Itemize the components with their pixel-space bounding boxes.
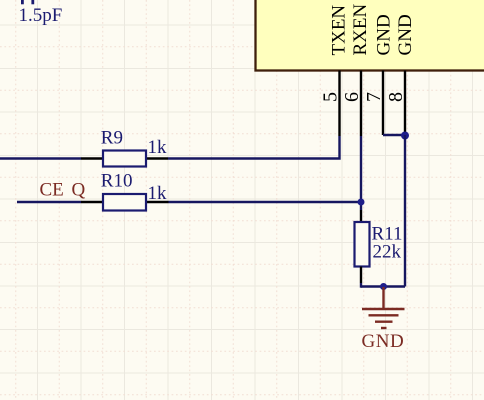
svg-text:R9: R9: [101, 128, 123, 149]
svg-text:6: 6: [341, 92, 363, 102]
junction dot at R10/pin6: [358, 199, 365, 206]
svg-text:5: 5: [320, 92, 342, 102]
svg-text:7: 7: [363, 92, 385, 102]
svg-text:1.5pF: 1.5pF: [19, 5, 63, 26]
svg-text:TXEN: TXEN: [329, 5, 350, 56]
svg-text:22k: 22k: [373, 242, 402, 263]
net label CE Q: [40, 180, 86, 201]
svg-text:RXEN: RXEN: [350, 4, 371, 56]
pin 7 line: [382, 71, 384, 136]
wire pin6 down to R11: [360, 136, 362, 210]
pin 8 line: [404, 71, 406, 136]
IC body U? (partial, cut off top/right): [256, 0, 484, 71]
wire bottom horizontal to ground node: [361, 285, 405, 287]
wire pin8 column down: [404, 135, 406, 287]
ground symbol: [362, 287, 405, 328]
svg-text:1k: 1k: [148, 183, 168, 204]
svg-text:GND: GND: [395, 14, 416, 55]
junction dot ground node: [380, 283, 387, 290]
svg-text:CE: CE: [40, 180, 64, 201]
resistor R11: [355, 222, 370, 288]
resistor R10: [81, 194, 169, 211]
svg-text:R10: R10: [101, 171, 133, 192]
wire pin7 jog to pin8: [383, 134, 405, 136]
svg-text:GND: GND: [362, 331, 405, 352]
wire R10 right to pin6 column: [169, 201, 362, 203]
wire left of R9 to image edge: [0, 157, 81, 159]
svg-text:Q: Q: [72, 180, 86, 201]
pin 6 line: [360, 71, 362, 137]
pin 5 line: [338, 71, 340, 137]
svg-text:GND: GND: [374, 14, 395, 55]
wire pin5 down to R9 row: [168, 136, 340, 159]
svg-text:8: 8: [385, 92, 407, 102]
junction dot pin8: [401, 132, 409, 140]
resistor R9: [81, 151, 168, 167]
svg-text:1k: 1k: [148, 137, 168, 158]
wire left of R10: [17, 201, 81, 203]
capacitor lead stubs (component cut off at top edge): [22, 0, 32, 4]
